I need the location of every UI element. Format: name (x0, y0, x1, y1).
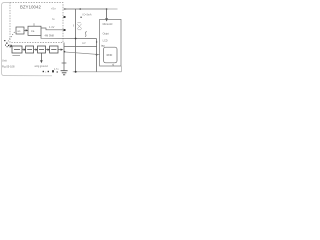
arrow B2-B3 (34, 49, 38, 50)
vertical V1 x75.6 (75, 9, 77, 72)
tick above A2 (33, 23, 35, 26)
wire W3 y38.3 from A2 bottom to V2 (41, 35, 97, 38)
svg-text:BZY10042: BZY10042 (20, 4, 42, 9)
block A1 (16, 27, 24, 34)
svg-text:RFID: RFID (107, 54, 113, 57)
svg-text:Microcntlr: Microcntlr (103, 23, 113, 26)
svg-text:Outpt: Outpt (103, 33, 109, 36)
junction dot W5 on rail (64, 51, 66, 53)
svg-text:+5 ▸: +5 ▸ (51, 7, 57, 11)
svg-text:tra: tra (31, 29, 35, 33)
junction dot V2 top (96, 41, 97, 42)
svg-text:Fig 05-108: Fig 05-108 (2, 65, 15, 69)
arrow B1-B2 (22, 49, 26, 50)
svg-text:mV: mV (82, 42, 86, 45)
wire W1 +V rail y9 (64, 8, 107, 10)
node a (dark tick on border) (64, 16, 66, 18)
curl symbol above W3 (85, 32, 87, 37)
node b (dark tick on border) (64, 29, 66, 31)
svg-text:4M 3M8: 4M 3M8 (45, 34, 55, 38)
wire W4 y46.6 (64, 46, 97, 48)
ground bus W6 y71.8 (73, 71, 122, 73)
svg-text:3u: 3u (52, 18, 55, 21)
block B2 (26, 46, 34, 53)
svg-text:IC=3mA: IC=3mA (83, 13, 92, 16)
rail V0 x64 (63, 43, 65, 71)
junction dot at branch to controller (106, 8, 108, 10)
antenna feed (dash-dot diagonal) (8, 32, 15, 42)
wire A1 to A2 with arrow (24, 30, 28, 31)
arrow B3-B4 (46, 49, 50, 50)
page frame (2, 3, 52, 76)
controller unit box (100, 19, 121, 66)
block B3 (38, 46, 46, 53)
arrow B4 to rail (58, 49, 63, 50)
junction dot V1/W3 (75, 38, 77, 40)
arrow down from B3 (41, 53, 43, 62)
arrow into controller top (106, 9, 108, 21)
wire W5 into RFID reader with arrow (65, 52, 104, 55)
junction dot on W1 (79, 8, 81, 10)
svg-text:anlg ground: anlg ground (35, 65, 49, 68)
svg-text:LCD: LCD (103, 39, 108, 42)
ground G1 (61, 71, 68, 75)
transistor Q1 (74, 23, 82, 30)
svg-text:1 nV: 1 nV (49, 25, 55, 29)
svg-text:Unit: Unit (2, 59, 7, 63)
stub up to controller box (120, 66, 122, 72)
svg-text:4.7n: 4.7n (54, 69, 59, 71)
wire from A2 right at y28 (41, 28, 63, 30)
arrow into block B1 (10, 45, 12, 47)
tick on rail (62, 62, 67, 64)
junction dot V1/W6 (75, 71, 77, 73)
dash under B1 (12, 55, 20, 57)
arrowhead at W1 start (64, 8, 66, 10)
block B4 (50, 46, 58, 53)
RF unit enclosure (dashed box) (10, 3, 63, 43)
marker dots row (43, 70, 58, 72)
vertical V2 x96.6 (96, 39, 98, 72)
svg-text:tag: tag (101, 44, 105, 47)
svg-text:a: a (45, 71, 47, 73)
RFID reader rounded box (104, 47, 117, 63)
junction dot V2/W5 (96, 54, 98, 56)
receiver chain block B1 (12, 46, 22, 53)
block A2 (28, 26, 41, 35)
